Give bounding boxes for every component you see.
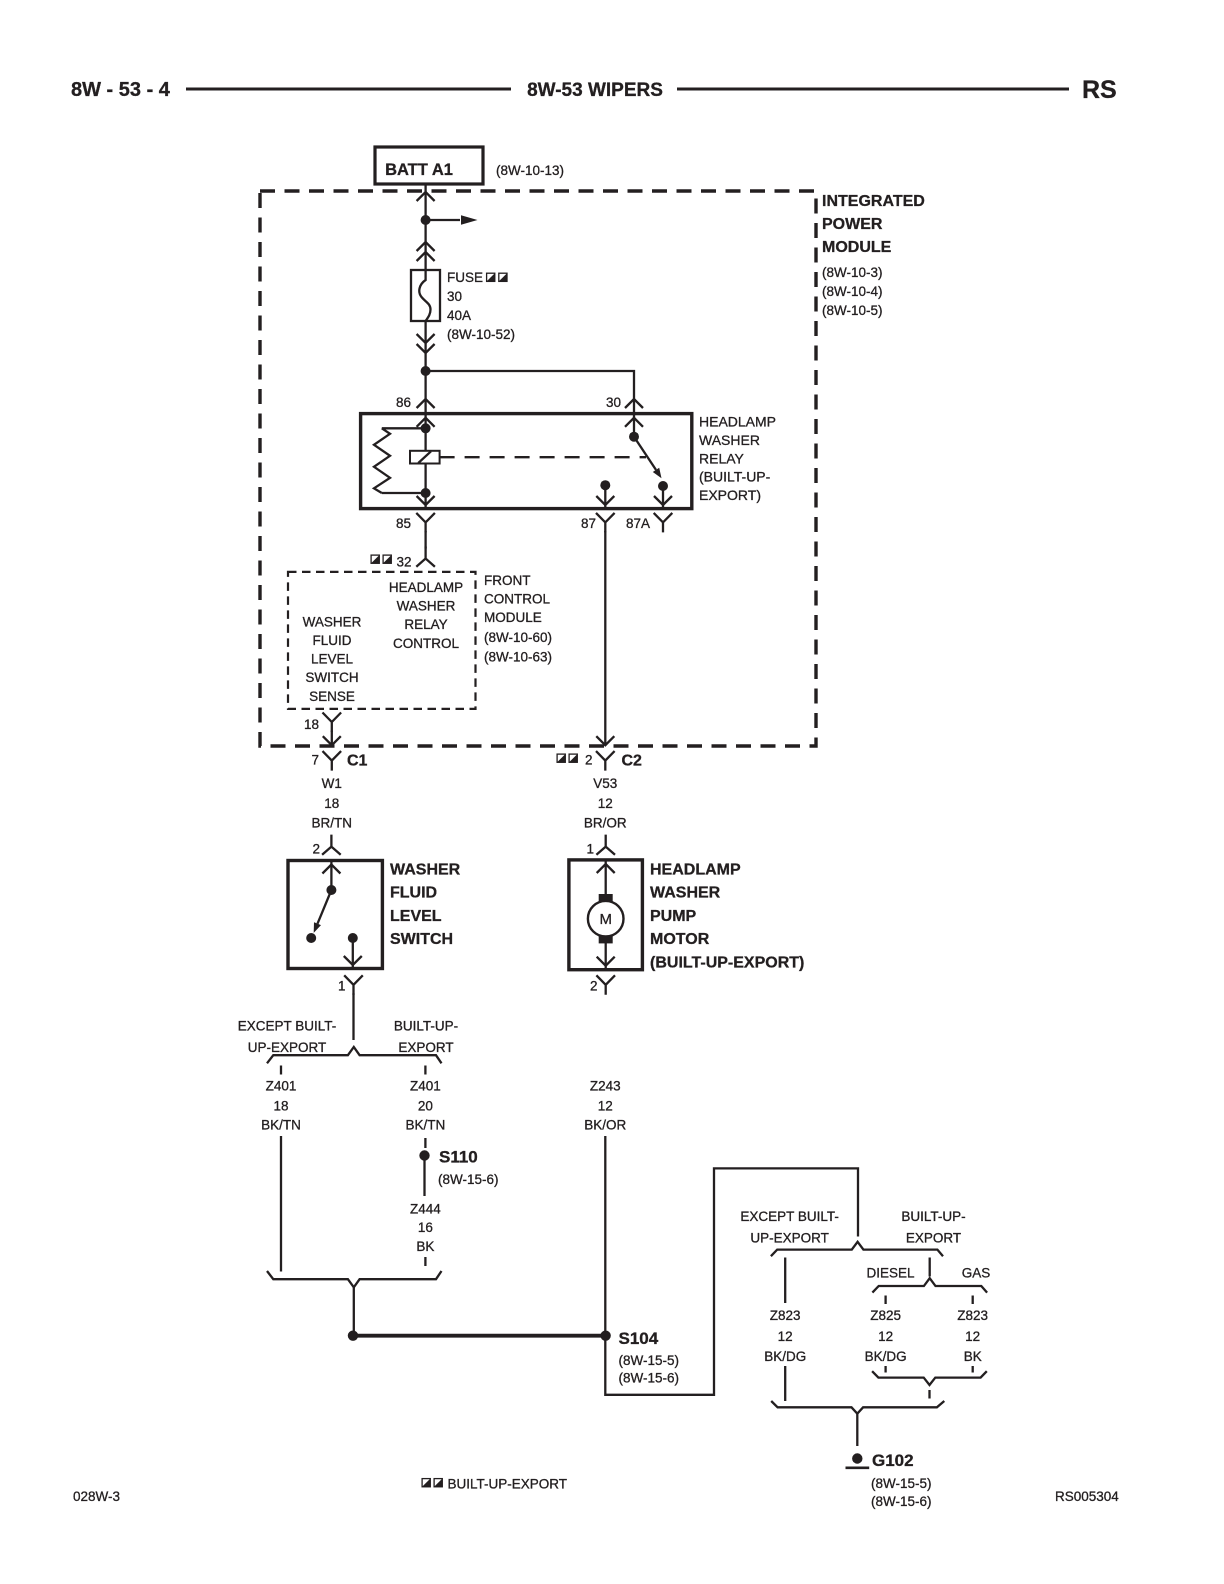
connector into FCM <box>416 547 435 567</box>
svg-text:UP-EXPORT: UP-EXPORT <box>248 1040 327 1055</box>
svg-text:RELAY: RELAY <box>404 617 447 632</box>
switch pin 1 exit connector <box>344 975 363 995</box>
pin 87A exit connector <box>654 513 673 533</box>
svg-text:(8W-10-13): (8W-10-13) <box>496 163 564 178</box>
common node dot <box>629 432 639 442</box>
integrated power module dashed box <box>260 191 816 746</box>
coil slash <box>418 451 431 463</box>
svg-text:8W - 53 - 4: 8W - 53 - 4 <box>71 79 171 101</box>
wire fuse down to relay pin 86 <box>424 321 426 414</box>
svg-text:Z401: Z401 <box>266 1079 297 1094</box>
dashed stub above S110 <box>424 1138 426 1148</box>
svg-text:32: 32 <box>397 555 412 570</box>
svg-text:Z825: Z825 <box>870 1308 901 1323</box>
svg-text:MOTOR: MOTOR <box>650 931 710 948</box>
motor wire top <box>605 860 607 896</box>
svg-text:LEVEL: LEVEL <box>311 652 354 667</box>
pin 87A wire <box>662 486 664 509</box>
dashed stub right <box>424 1066 426 1075</box>
FCM pin 18 exit connector <box>323 713 342 733</box>
svg-text:2: 2 <box>590 979 598 994</box>
svg-text:GAS: GAS <box>962 1266 991 1281</box>
motor wire bottom <box>605 941 607 970</box>
svg-text:7: 7 <box>311 753 319 768</box>
svg-text:(8W-15-5): (8W-15-5) <box>619 1353 680 1368</box>
svg-text:(8W-10-63): (8W-10-63) <box>484 649 552 664</box>
svg-text:30: 30 <box>606 395 621 410</box>
svg-text:20: 20 <box>418 1098 433 1113</box>
svg-text:RS: RS <box>1082 76 1117 104</box>
svg-text:12: 12 <box>778 1329 793 1344</box>
svg-text:WASHER: WASHER <box>303 614 362 629</box>
svg-text:RELAY: RELAY <box>699 450 745 466</box>
svg-text:1: 1 <box>586 842 594 857</box>
wire BATT A1 down to fuse <box>424 184 426 270</box>
svg-text:(8W-15-5): (8W-15-5) <box>871 1476 932 1491</box>
splice bus line <box>353 1334 606 1338</box>
svg-text:BK/TN: BK/TN <box>261 1118 301 1133</box>
svg-text:BUILT-UP-EXPORT: BUILT-UP-EXPORT <box>448 1477 568 1492</box>
svg-text:CONTROL: CONTROL <box>484 592 550 607</box>
svg-text:S104: S104 <box>619 1329 659 1348</box>
header rule right <box>677 88 1069 91</box>
pin 86 entry connector <box>417 399 435 408</box>
svg-text:BUILT-UP-: BUILT-UP- <box>394 1019 458 1034</box>
svg-text:G102: G102 <box>872 1451 914 1470</box>
svg-text:(8W-10-5): (8W-10-5) <box>822 303 883 318</box>
wire branch to pin 30 <box>426 371 634 414</box>
switch arm <box>318 890 332 924</box>
splice S110 <box>419 1150 429 1160</box>
svg-text:2: 2 <box>312 842 320 857</box>
split brace diesel gas <box>872 1278 987 1292</box>
svg-text:HEADLAMP: HEADLAMP <box>699 414 776 430</box>
svg-text:WASHER: WASHER <box>650 885 721 902</box>
pin 85 exit connector <box>416 513 435 533</box>
headlamp washer pump motor box <box>569 860 643 970</box>
svg-text:LEVEL: LEVEL <box>390 908 442 925</box>
pin 86 chevron inside relay <box>417 418 435 427</box>
svg-text:S110: S110 <box>439 1148 478 1167</box>
svg-text:MODULE: MODULE <box>484 610 542 625</box>
svg-text:FRONT: FRONT <box>484 573 531 588</box>
svg-text:86: 86 <box>396 395 411 410</box>
switch pin 2 connector <box>322 835 341 855</box>
dashed stub below BK <box>972 1366 974 1373</box>
wire below S110 <box>423 1156 425 1197</box>
relay coil resistor zigzag <box>374 428 390 493</box>
dashed stub below merge <box>928 1390 930 1399</box>
svg-text:87: 87 <box>581 516 596 531</box>
svg-text:BATT A1: BATT A1 <box>385 161 453 179</box>
svg-text:87A: 87A <box>626 516 650 531</box>
bus left dot <box>348 1331 358 1341</box>
motor pin 2 exit connector <box>596 975 615 995</box>
svg-text:V53: V53 <box>593 776 617 791</box>
pin 87 wire <box>604 485 606 508</box>
header rule left <box>186 88 511 91</box>
dashed stub below BK/DG <box>884 1366 886 1373</box>
dashed stub diesel <box>884 1296 886 1305</box>
svg-text:EXPORT: EXPORT <box>398 1040 453 1055</box>
svg-text:1: 1 <box>338 979 346 994</box>
resistor link bottom <box>382 492 426 494</box>
svg-text:(8W-10-3): (8W-10-3) <box>822 265 883 280</box>
washer fluid level switch box <box>288 861 382 969</box>
svg-text:INTEGRATED: INTEGRATED <box>822 193 925 210</box>
coil top node dot <box>421 423 431 433</box>
svg-text:Z823: Z823 <box>770 1308 801 1323</box>
svg-text:HEADLAMP: HEADLAMP <box>650 862 741 879</box>
motor body circle <box>588 901 624 937</box>
branch arrow to right <box>426 219 460 221</box>
svg-text:12: 12 <box>598 1098 613 1113</box>
final merge brace <box>771 1401 944 1414</box>
svg-text:BK: BK <box>964 1349 982 1364</box>
svg-text:(BUILT-UP-: (BUILT-UP- <box>699 469 771 485</box>
dashed stub below Z444 <box>424 1257 426 1266</box>
svg-text:DIESEL: DIESEL <box>866 1266 915 1281</box>
merge brace left options <box>267 1271 442 1287</box>
split brace right options <box>771 1242 943 1256</box>
coil bottom node dot <box>421 488 431 498</box>
fuse element squiggle <box>419 270 430 321</box>
pin 30 chevron inside relay <box>625 418 643 427</box>
svg-text:12: 12 <box>878 1329 893 1344</box>
motor top brush <box>599 894 613 902</box>
svg-text:18: 18 <box>324 796 339 811</box>
motor pin 1 connector <box>596 835 615 855</box>
wire 87 down to C2 <box>604 531 606 746</box>
ground bar <box>846 1467 870 1470</box>
svg-text:Z243: Z243 <box>590 1079 621 1094</box>
front control module dashed box <box>288 572 476 709</box>
svg-text:FLUID: FLUID <box>312 633 351 648</box>
wire Z243 down through S104 and around <box>605 1136 858 1395</box>
headlamp washer relay box <box>361 414 692 509</box>
svg-text:BUILT-UP-: BUILT-UP- <box>901 1209 965 1224</box>
svg-text:WASHER: WASHER <box>390 862 461 879</box>
relay switch arm <box>634 437 656 470</box>
svg-text:MODULE: MODULE <box>822 239 892 256</box>
dashed stub gas <box>972 1296 974 1305</box>
wire 18 to C1 <box>331 731 333 746</box>
relay actuation dashed line <box>440 456 646 458</box>
svg-text:18: 18 <box>304 717 319 732</box>
wire pin85 down to FCM <box>424 531 426 549</box>
svg-text:40A: 40A <box>447 308 471 323</box>
flags at circuit 32 <box>371 555 379 563</box>
svg-text:(8W-15-6): (8W-15-6) <box>438 1172 499 1187</box>
footer legend flags <box>422 1479 430 1487</box>
wire except branch lower <box>784 1366 786 1401</box>
svg-text:C2: C2 <box>622 753 643 770</box>
svg-text:BK/DG: BK/DG <box>865 1349 907 1364</box>
svg-text:BR/OR: BR/OR <box>584 816 627 831</box>
svg-text:12: 12 <box>598 796 613 811</box>
svg-text:FUSE: FUSE <box>447 270 483 285</box>
svg-text:PUMP: PUMP <box>650 908 697 925</box>
svg-text:HEADLAMP: HEADLAMP <box>389 580 463 595</box>
split brace left options <box>267 1047 442 1063</box>
pin 30 wire to common node <box>633 414 635 437</box>
svg-text:(8W-10-52): (8W-10-52) <box>447 327 515 342</box>
junction dot below fuse <box>421 366 431 376</box>
svg-text:WASHER: WASHER <box>699 432 760 448</box>
motor pin 1 chevron inside <box>597 864 615 873</box>
svg-text:Z401: Z401 <box>410 1079 441 1094</box>
double chevron (connector) above fuse <box>417 242 435 251</box>
wire left branch long <box>280 1136 282 1272</box>
svg-text:BK/OR: BK/OR <box>584 1118 626 1133</box>
pin 87A node dot <box>658 481 668 491</box>
switch right contact dot <box>348 933 358 943</box>
switch pivot dot <box>326 885 336 895</box>
svg-text:C1: C1 <box>347 753 368 770</box>
svg-text:BK/DG: BK/DG <box>764 1349 806 1364</box>
flags built-up-export at fuse <box>487 273 495 281</box>
wire except branch upper <box>784 1258 786 1304</box>
svg-text:SWITCH: SWITCH <box>390 931 453 948</box>
svg-text:EXPORT): EXPORT) <box>699 487 761 503</box>
fuse F30 box <box>411 270 440 321</box>
svg-text:18: 18 <box>273 1098 288 1113</box>
svg-text:EXCEPT BUILT-: EXCEPT BUILT- <box>238 1019 337 1034</box>
svg-text:(8W-15-6): (8W-15-6) <box>619 1370 680 1385</box>
svg-text:FLUID: FLUID <box>390 885 437 902</box>
pin 87 exit connector <box>596 513 615 533</box>
splice S104 <box>600 1331 610 1341</box>
svg-text:EXCEPT BUILT-: EXCEPT BUILT- <box>740 1209 839 1224</box>
svg-text:SWITCH: SWITCH <box>305 670 358 685</box>
svg-text:WASHER: WASHER <box>397 599 456 614</box>
svg-text:(BUILT-UP-EXPORT): (BUILT-UP-EXPORT) <box>650 954 804 971</box>
stub to diesel/gas brace <box>929 1258 931 1277</box>
svg-text:RS005304: RS005304 <box>1055 1489 1119 1504</box>
svg-text:CONTROL: CONTROL <box>393 636 459 651</box>
svg-text:30: 30 <box>447 289 462 304</box>
pin 87 node dot <box>600 480 610 490</box>
svg-text:12: 12 <box>965 1329 980 1344</box>
svg-text:M: M <box>599 911 612 928</box>
relay coil symbol box <box>410 451 440 464</box>
svg-text:SENSE: SENSE <box>309 689 355 704</box>
dashed stub left <box>280 1066 282 1075</box>
arrow chevron at IPM border <box>417 192 435 201</box>
switch pin 2 chevron inside <box>322 865 340 874</box>
wire from switch pin1 down <box>352 993 354 1040</box>
svg-text:BR/TN: BR/TN <box>312 816 353 831</box>
wire to ground <box>856 1414 858 1446</box>
svg-text:(8W-15-6): (8W-15-6) <box>871 1494 932 1509</box>
svg-text:16: 16 <box>418 1220 433 1235</box>
svg-text:2: 2 <box>585 753 593 768</box>
ground G102 dot <box>852 1453 862 1463</box>
svg-text:W1: W1 <box>322 776 342 791</box>
switch right contact wire <box>352 938 354 969</box>
pin 30 entry connector <box>625 399 643 408</box>
switch left contact dot <box>306 933 316 943</box>
svg-text:UP-EXPORT: UP-EXPORT <box>750 1231 829 1246</box>
BATT A1 box <box>375 147 483 184</box>
resistor link top <box>382 427 426 429</box>
svg-text:8W-53 WIPERS: 8W-53 WIPERS <box>527 80 663 101</box>
merge brace diesel gas <box>872 1371 987 1385</box>
svg-text:(8W-10-4): (8W-10-4) <box>822 284 883 299</box>
svg-text:BK/TN: BK/TN <box>406 1118 446 1133</box>
svg-text:POWER: POWER <box>822 216 883 233</box>
double chevron below fuse <box>417 334 435 343</box>
switch wire to pivot <box>330 861 332 891</box>
connector C2 <box>557 754 565 762</box>
svg-text:EXPORT: EXPORT <box>906 1231 961 1246</box>
svg-text:Z444: Z444 <box>410 1202 441 1217</box>
svg-text:85: 85 <box>396 516 411 531</box>
relay coil wire through <box>424 414 426 509</box>
svg-text:(8W-10-60): (8W-10-60) <box>484 630 552 645</box>
wire brace to S104 bus <box>353 1287 355 1331</box>
pin 85 chevron inside relay <box>417 496 435 505</box>
junction node dot <box>421 215 431 225</box>
svg-text:BK: BK <box>416 1239 434 1254</box>
svg-text:028W-3: 028W-3 <box>73 1489 120 1504</box>
svg-text:Z823: Z823 <box>957 1308 988 1323</box>
motor bottom brush <box>599 936 613 944</box>
